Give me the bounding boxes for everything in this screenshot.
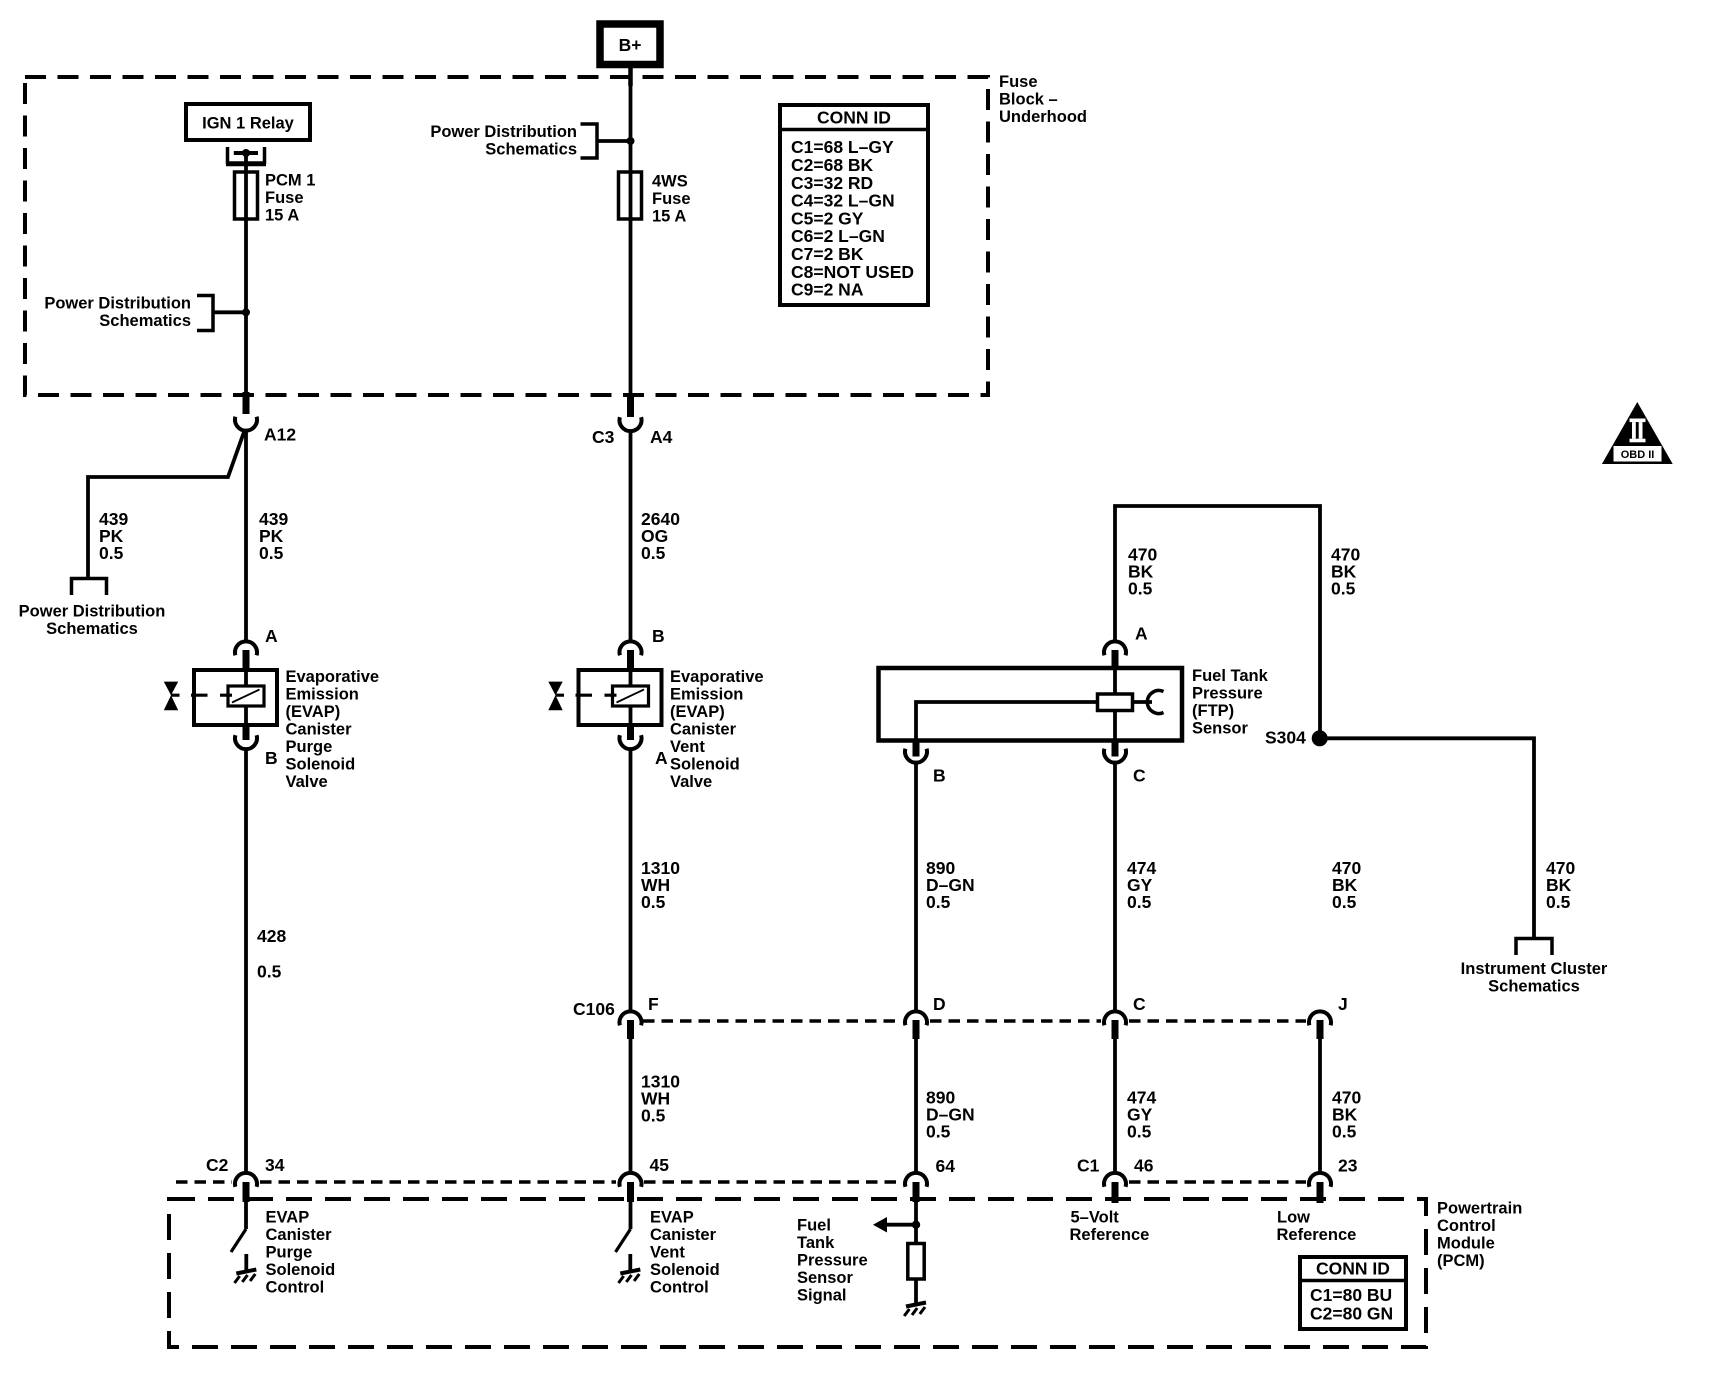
label Evaporative Emission (EVAP) Canister Vent Solenoid Valve <box>670 668 764 791</box>
in-line connector C106 dashed line <box>643 1019 1306 1023</box>
svg-text:Schematics: Schematics <box>485 140 577 158</box>
svg-text:D: D <box>933 994 946 1014</box>
purge valve pin B stub <box>243 725 250 740</box>
IGN 1 Relay box <box>186 104 310 140</box>
relay output terminal bracket <box>226 147 266 164</box>
connector C106 pin D stub <box>913 1020 920 1039</box>
EVAP vent solenoid valve box <box>579 670 662 725</box>
svg-text:0.5: 0.5 <box>1127 1121 1152 1141</box>
svg-text:CONN ID: CONN ID <box>1316 1258 1390 1278</box>
svg-text:0.5: 0.5 <box>1128 578 1153 598</box>
svg-text:EVAP: EVAP <box>266 1208 310 1226</box>
connector A12 female cup <box>235 417 257 431</box>
PCM connector C1 row dashed line <box>1129 1180 1306 1184</box>
svg-text:Solenoid: Solenoid <box>650 1261 720 1279</box>
wire relay to A12 (column 1) <box>244 153 248 393</box>
svg-text:Evaporative: Evaporative <box>670 668 764 686</box>
svg-text:F: F <box>648 994 659 1014</box>
svg-text:4WS: 4WS <box>652 172 688 190</box>
svg-text:C3: C3 <box>592 427 615 447</box>
svg-text:0.5: 0.5 <box>257 962 282 982</box>
connector C106 pin J cup <box>1309 1011 1331 1025</box>
svg-text:Pressure: Pressure <box>797 1251 868 1269</box>
FTP pin B stub <box>913 741 920 757</box>
wire C106 J to PCM pin 23 <box>1318 1038 1322 1173</box>
PCM dashed box (Powertrain Control Module) <box>169 1199 1426 1347</box>
svg-text:Pressure: Pressure <box>1192 684 1263 702</box>
B+ battery feed box <box>600 24 660 65</box>
FTP pressure port arc <box>1147 691 1163 714</box>
svg-text:B: B <box>933 765 946 785</box>
junction dot relay terminal <box>242 149 250 157</box>
PCM pin 46 cup <box>1104 1173 1126 1187</box>
svg-text:0.5: 0.5 <box>1332 1121 1357 1141</box>
svg-text:Control: Control <box>650 1278 709 1296</box>
svg-text:0.5: 0.5 <box>926 892 951 912</box>
label Fuel Tank Pressure Sensor Signal <box>797 1216 868 1304</box>
connector C106 pin C cup <box>1104 1011 1126 1025</box>
svg-text:Fuse: Fuse <box>999 73 1038 91</box>
svg-text:Solenoid: Solenoid <box>266 1261 336 1279</box>
label 890 D-GN 0.5 (upper) <box>926 858 975 912</box>
label PCM 1 Fuse 15 A <box>265 171 315 224</box>
wire bracket arm to column 1 <box>213 310 246 314</box>
svg-text:5–Volt: 5–Volt <box>1071 1208 1120 1226</box>
svg-text:15 A: 15 A <box>265 206 299 224</box>
svg-text:C1=80 BU: C1=80 BU <box>1310 1285 1392 1305</box>
svg-text:Reference: Reference <box>1277 1226 1357 1244</box>
svg-text:C2=80 GN: C2=80 GN <box>1310 1303 1393 1323</box>
svg-text:Purge: Purge <box>286 738 333 756</box>
label 474 GY 0.5 (lower) <box>1127 1087 1156 1141</box>
svg-text:Power Distribution: Power Distribution <box>19 602 166 620</box>
wire FTP C to C106 pin C <box>1113 763 1117 1011</box>
svg-text:Schematics: Schematics <box>46 620 138 638</box>
svg-text:Fuel: Fuel <box>797 1216 831 1234</box>
svg-text:0.5: 0.5 <box>1331 578 1356 598</box>
power distribution schematics pointer bracket (left) <box>197 296 213 331</box>
label Low Reference <box>1277 1208 1357 1244</box>
fuse block underhood dashed box <box>25 77 988 395</box>
PCM pin 34 cup <box>235 1173 257 1187</box>
OBD II symbol triangle <box>1602 402 1673 464</box>
svg-text:428: 428 <box>257 926 286 946</box>
vent driver switch blade <box>616 1229 631 1252</box>
wire A4 to vent valve pin B <box>629 431 633 640</box>
svg-text:B: B <box>652 626 665 646</box>
svg-text:C: C <box>1133 994 1146 1014</box>
vent valve coil <box>613 686 649 706</box>
Fuel Tank Pressure sensor box <box>879 668 1183 741</box>
svg-text:C9=2 NA: C9=2 NA <box>791 280 864 300</box>
label 470 BK 0.5 (instrument cluster branch) <box>1546 858 1575 912</box>
purge valve dashed link <box>171 694 232 697</box>
off-page bracket to power distribution <box>72 579 107 596</box>
svg-text:C1: C1 <box>1077 1155 1100 1175</box>
purge driver switch blade <box>231 1229 246 1252</box>
svg-text:0.5: 0.5 <box>1546 892 1571 912</box>
svg-text:Powertrain: Powertrain <box>1437 1199 1522 1217</box>
svg-text:(FTP): (FTP) <box>1192 702 1234 720</box>
svg-text:A4: A4 <box>650 427 673 447</box>
svg-text:Sensor: Sensor <box>797 1269 854 1287</box>
label EVAP Canister Purge Solenoid Control <box>266 1208 336 1296</box>
label 470 BK 0.5 (S304 to J) <box>1332 858 1361 912</box>
FTP sensor pin A cup <box>1104 641 1126 655</box>
svg-text:C: C <box>1133 765 1146 785</box>
junction dot FTP signal <box>912 1221 920 1229</box>
svg-text:Canister: Canister <box>670 720 737 738</box>
svg-text:IGN 1 Relay: IGN 1 Relay <box>202 114 295 132</box>
label 5-Volt Reference <box>1070 1208 1150 1244</box>
label 428 / 0.5 <box>257 926 286 982</box>
svg-text:(EVAP): (EVAP) <box>286 703 341 721</box>
svg-text:Valve: Valve <box>670 773 712 791</box>
splice S304 node dot <box>1312 730 1328 746</box>
svg-text:A: A <box>655 748 668 768</box>
wire bracket arm to column 2 <box>597 139 631 143</box>
svg-text:34: 34 <box>265 1155 285 1175</box>
label 1310 WH 0.5 (upper) <box>641 858 680 912</box>
power distribution schematics pointer bracket (top) <box>581 124 598 158</box>
svg-text:Canister: Canister <box>266 1226 333 1244</box>
svg-text:A: A <box>1135 623 1148 643</box>
svg-text:Emission: Emission <box>286 685 359 703</box>
svg-text:PCM 1: PCM 1 <box>265 171 315 189</box>
svg-text:Low: Low <box>1277 1208 1310 1226</box>
resistor (FTP signal pull-up) <box>908 1244 924 1280</box>
svg-text:Schematics: Schematics <box>1488 977 1580 995</box>
svg-text:Module: Module <box>1437 1234 1495 1252</box>
connector C106 pin F cup <box>620 1011 642 1025</box>
purge valve coil <box>228 686 264 706</box>
vent driver ground stub <box>628 1254 632 1271</box>
vent valve pin A cup <box>620 735 642 749</box>
svg-text:Power Distribution: Power Distribution <box>430 123 577 141</box>
off-page bracket to instrument cluster <box>1516 939 1552 956</box>
svg-text:Schematics: Schematics <box>99 312 191 330</box>
EVAP vent valve pin B stub <box>627 650 634 670</box>
label 439 PK 0.5 (branch) <box>99 509 128 563</box>
EVAP purge solenoid valve box <box>194 670 277 725</box>
svg-text:A12: A12 <box>264 424 296 444</box>
svg-text:OBD II: OBD II <box>1621 449 1655 461</box>
svg-text:0.5: 0.5 <box>1332 892 1357 912</box>
FTP internal feed wire <box>1113 668 1117 740</box>
svg-text:Block –: Block – <box>999 90 1058 108</box>
label 470 BK 0.5 (low reference drop) <box>1331 544 1360 598</box>
FTP internal wiper wire <box>916 702 1152 740</box>
svg-text:Underhood: Underhood <box>999 108 1087 126</box>
svg-text:0.5: 0.5 <box>641 543 666 563</box>
purge driver ground stub <box>244 1254 248 1271</box>
purge valve coil wire <box>244 670 248 725</box>
PCM pin 45 cup <box>620 1173 642 1187</box>
FTP pin C cup <box>1104 749 1126 763</box>
connector C3/A4 female cup <box>620 417 642 431</box>
svg-text:J: J <box>1338 994 1348 1014</box>
wire PCM pin 45 to vent driver switch <box>629 1201 633 1229</box>
wire C106 F to PCM pin 45 <box>629 1038 633 1173</box>
label Powertrain Control Module (PCM) <box>1437 1199 1522 1270</box>
PCM connector C2 row dashed line <box>176 1180 902 1184</box>
svg-text:A: A <box>265 626 278 646</box>
ground (FTP signal) <box>904 1303 926 1317</box>
label Power Distribution Schematics (left) <box>44 294 191 330</box>
svg-text:Fuse: Fuse <box>652 190 691 208</box>
svg-text:Control: Control <box>266 1278 325 1296</box>
svg-text:0.5: 0.5 <box>641 1105 666 1125</box>
svg-text:46: 46 <box>1134 1155 1154 1175</box>
svg-text:Tank: Tank <box>797 1234 835 1252</box>
wire PCM pin 64 to signal resistor <box>914 1201 918 1244</box>
svg-text:B+: B+ <box>619 35 642 55</box>
svg-text:Power Distribution: Power Distribution <box>44 294 191 312</box>
junction dot on column 1 <box>242 308 250 316</box>
ground (vent driver) <box>619 1270 641 1284</box>
svg-text:Purge: Purge <box>266 1243 313 1261</box>
vent valve symbol (hourglass) <box>548 682 562 711</box>
wire PCM pin 34 to purge driver switch <box>244 1201 248 1229</box>
connector C106 pin J stub <box>1317 1020 1324 1039</box>
svg-text:EVAP: EVAP <box>650 1208 694 1226</box>
wire FTP B to C106 pin D <box>914 763 918 1011</box>
label 4WS Fuse 15 A <box>652 172 691 225</box>
svg-text:Fuel Tank: Fuel Tank <box>1192 667 1269 685</box>
PCM pin 23 cup <box>1309 1173 1331 1187</box>
svg-text:Sensor: Sensor <box>1192 719 1249 737</box>
vent valve dashed link <box>556 694 617 697</box>
purge valve symbol (hourglass) <box>164 682 178 711</box>
connector C106 pin C stub <box>1112 1020 1119 1039</box>
svg-text:Solenoid: Solenoid <box>286 755 356 773</box>
wire resistor to ground <box>914 1279 918 1304</box>
connector C106 pin D cup <box>905 1011 927 1025</box>
connector C106 pin F stub <box>627 1020 634 1039</box>
label 890 D-GN 0.5 (lower) <box>926 1087 975 1141</box>
svg-text:Canister: Canister <box>650 1226 717 1244</box>
wire A12 to valve pin A <box>244 430 248 640</box>
ground (purge driver) <box>235 1270 257 1284</box>
label 470 BK 0.5 (FTP A drop) <box>1128 544 1157 598</box>
label 474 GY 0.5 (upper) <box>1127 858 1156 912</box>
svg-text:C106: C106 <box>573 999 615 1019</box>
vent valve coil wire <box>629 670 633 725</box>
svg-text:Evaporative: Evaporative <box>286 668 380 686</box>
label Evaporative Emission (EVAP) Canister Purge Solenoid Valve <box>286 668 380 791</box>
svg-text:15 A: 15 A <box>652 207 686 225</box>
svg-text:0.5: 0.5 <box>641 892 666 912</box>
svg-text:Emission: Emission <box>670 685 743 703</box>
svg-text:Reference: Reference <box>1070 1226 1150 1244</box>
wire C106 C to PCM pin 46 <box>1113 1038 1117 1173</box>
wire C106 D to PCM pin 64 <box>914 1038 918 1173</box>
svg-text:Control: Control <box>1437 1217 1496 1235</box>
PCM pin 23 stub <box>1317 1182 1324 1203</box>
wire top link FTP A to low reference <box>1115 506 1320 738</box>
FTP signal arrowhead <box>873 1217 887 1233</box>
fuse 4WS 15 A <box>619 172 642 219</box>
CONN ID table (fuse block) <box>780 105 928 305</box>
junction dot on column 2 <box>627 137 635 145</box>
FTP pin B cup <box>905 749 927 763</box>
svg-text:Vent: Vent <box>670 738 705 756</box>
FTP internal resistor element <box>1098 694 1133 711</box>
svg-text:Canister: Canister <box>286 720 353 738</box>
svg-text:B: B <box>265 748 278 768</box>
svg-text:0.5: 0.5 <box>1127 892 1152 912</box>
svg-text:C2: C2 <box>206 1155 229 1175</box>
CONN ID table (PCM) <box>1300 1257 1406 1329</box>
fuse PCM 1 15 A <box>235 172 258 219</box>
PCM pin 46 stub <box>1112 1182 1119 1203</box>
EVAP vent valve pin B cup <box>620 641 642 655</box>
FTP pin C stub <box>1112 741 1119 757</box>
svg-text:Vent: Vent <box>650 1243 685 1261</box>
svg-text:Fuse: Fuse <box>265 189 304 207</box>
svg-text:Signal: Signal <box>797 1286 847 1304</box>
purge valve pin B cup <box>235 735 257 749</box>
svg-text:64: 64 <box>936 1156 956 1176</box>
svg-text:0.5: 0.5 <box>259 543 284 563</box>
label 470 BK 0.5 (lower) <box>1332 1087 1361 1141</box>
label 1310 WH 0.5 (lower) <box>641 1071 680 1125</box>
label Fuse Block - Underhood <box>999 73 1087 126</box>
label Power Distribution Schematics (branch) <box>19 602 166 638</box>
EVAP purge valve pin A stub <box>243 650 250 670</box>
connector C3/A4 male stub <box>627 396 634 417</box>
vent valve pin A stub <box>627 725 634 740</box>
FTP sensor pin A stub <box>1112 650 1119 670</box>
wire vent valve to C106 pin F <box>629 750 633 1012</box>
label Fuel Tank Pressure (FTP) Sensor <box>1192 667 1269 738</box>
svg-text:45: 45 <box>650 1155 670 1175</box>
svg-text:0.5: 0.5 <box>99 543 124 563</box>
PCM pin 64 cup <box>905 1173 927 1187</box>
label 439 PK 0.5 (column 1) <box>259 509 288 563</box>
svg-text:Instrument Cluster: Instrument Cluster <box>1461 960 1608 978</box>
svg-text:(EVAP): (EVAP) <box>670 703 725 721</box>
svg-text:0.5: 0.5 <box>926 1121 951 1141</box>
svg-text:S304: S304 <box>1265 728 1306 748</box>
label Power Distribution Schematics (top) <box>430 123 577 159</box>
connector A12 male stub <box>243 392 250 414</box>
label 2640 OG 0.5 <box>641 509 680 563</box>
wire branch diagonal from A12 <box>88 432 244 577</box>
wire B+ stub to fuse block <box>628 64 633 86</box>
FTP signal arrow line <box>884 1223 916 1227</box>
PCM pin 64 stub <box>913 1182 920 1202</box>
svg-text:CONN ID: CONN ID <box>817 107 891 127</box>
PCM pin 45 stub <box>627 1182 634 1202</box>
wire S304 branch to instrument cluster <box>1320 738 1534 937</box>
wire purge valve to PCM pin 34 <box>244 750 248 1174</box>
svg-text:23: 23 <box>1338 1155 1358 1175</box>
wire 4WS fuse column (column 2) <box>629 86 633 397</box>
EVAP purge valve pin A cup <box>235 641 257 655</box>
svg-text:(PCM): (PCM) <box>1437 1252 1485 1270</box>
label EVAP Canister Vent Solenoid Control <box>650 1208 720 1296</box>
svg-text:Valve: Valve <box>286 773 328 791</box>
label Instrument Cluster Schematics <box>1461 960 1608 996</box>
svg-text:Solenoid: Solenoid <box>670 755 740 773</box>
PCM pin 34 stub <box>243 1182 250 1202</box>
